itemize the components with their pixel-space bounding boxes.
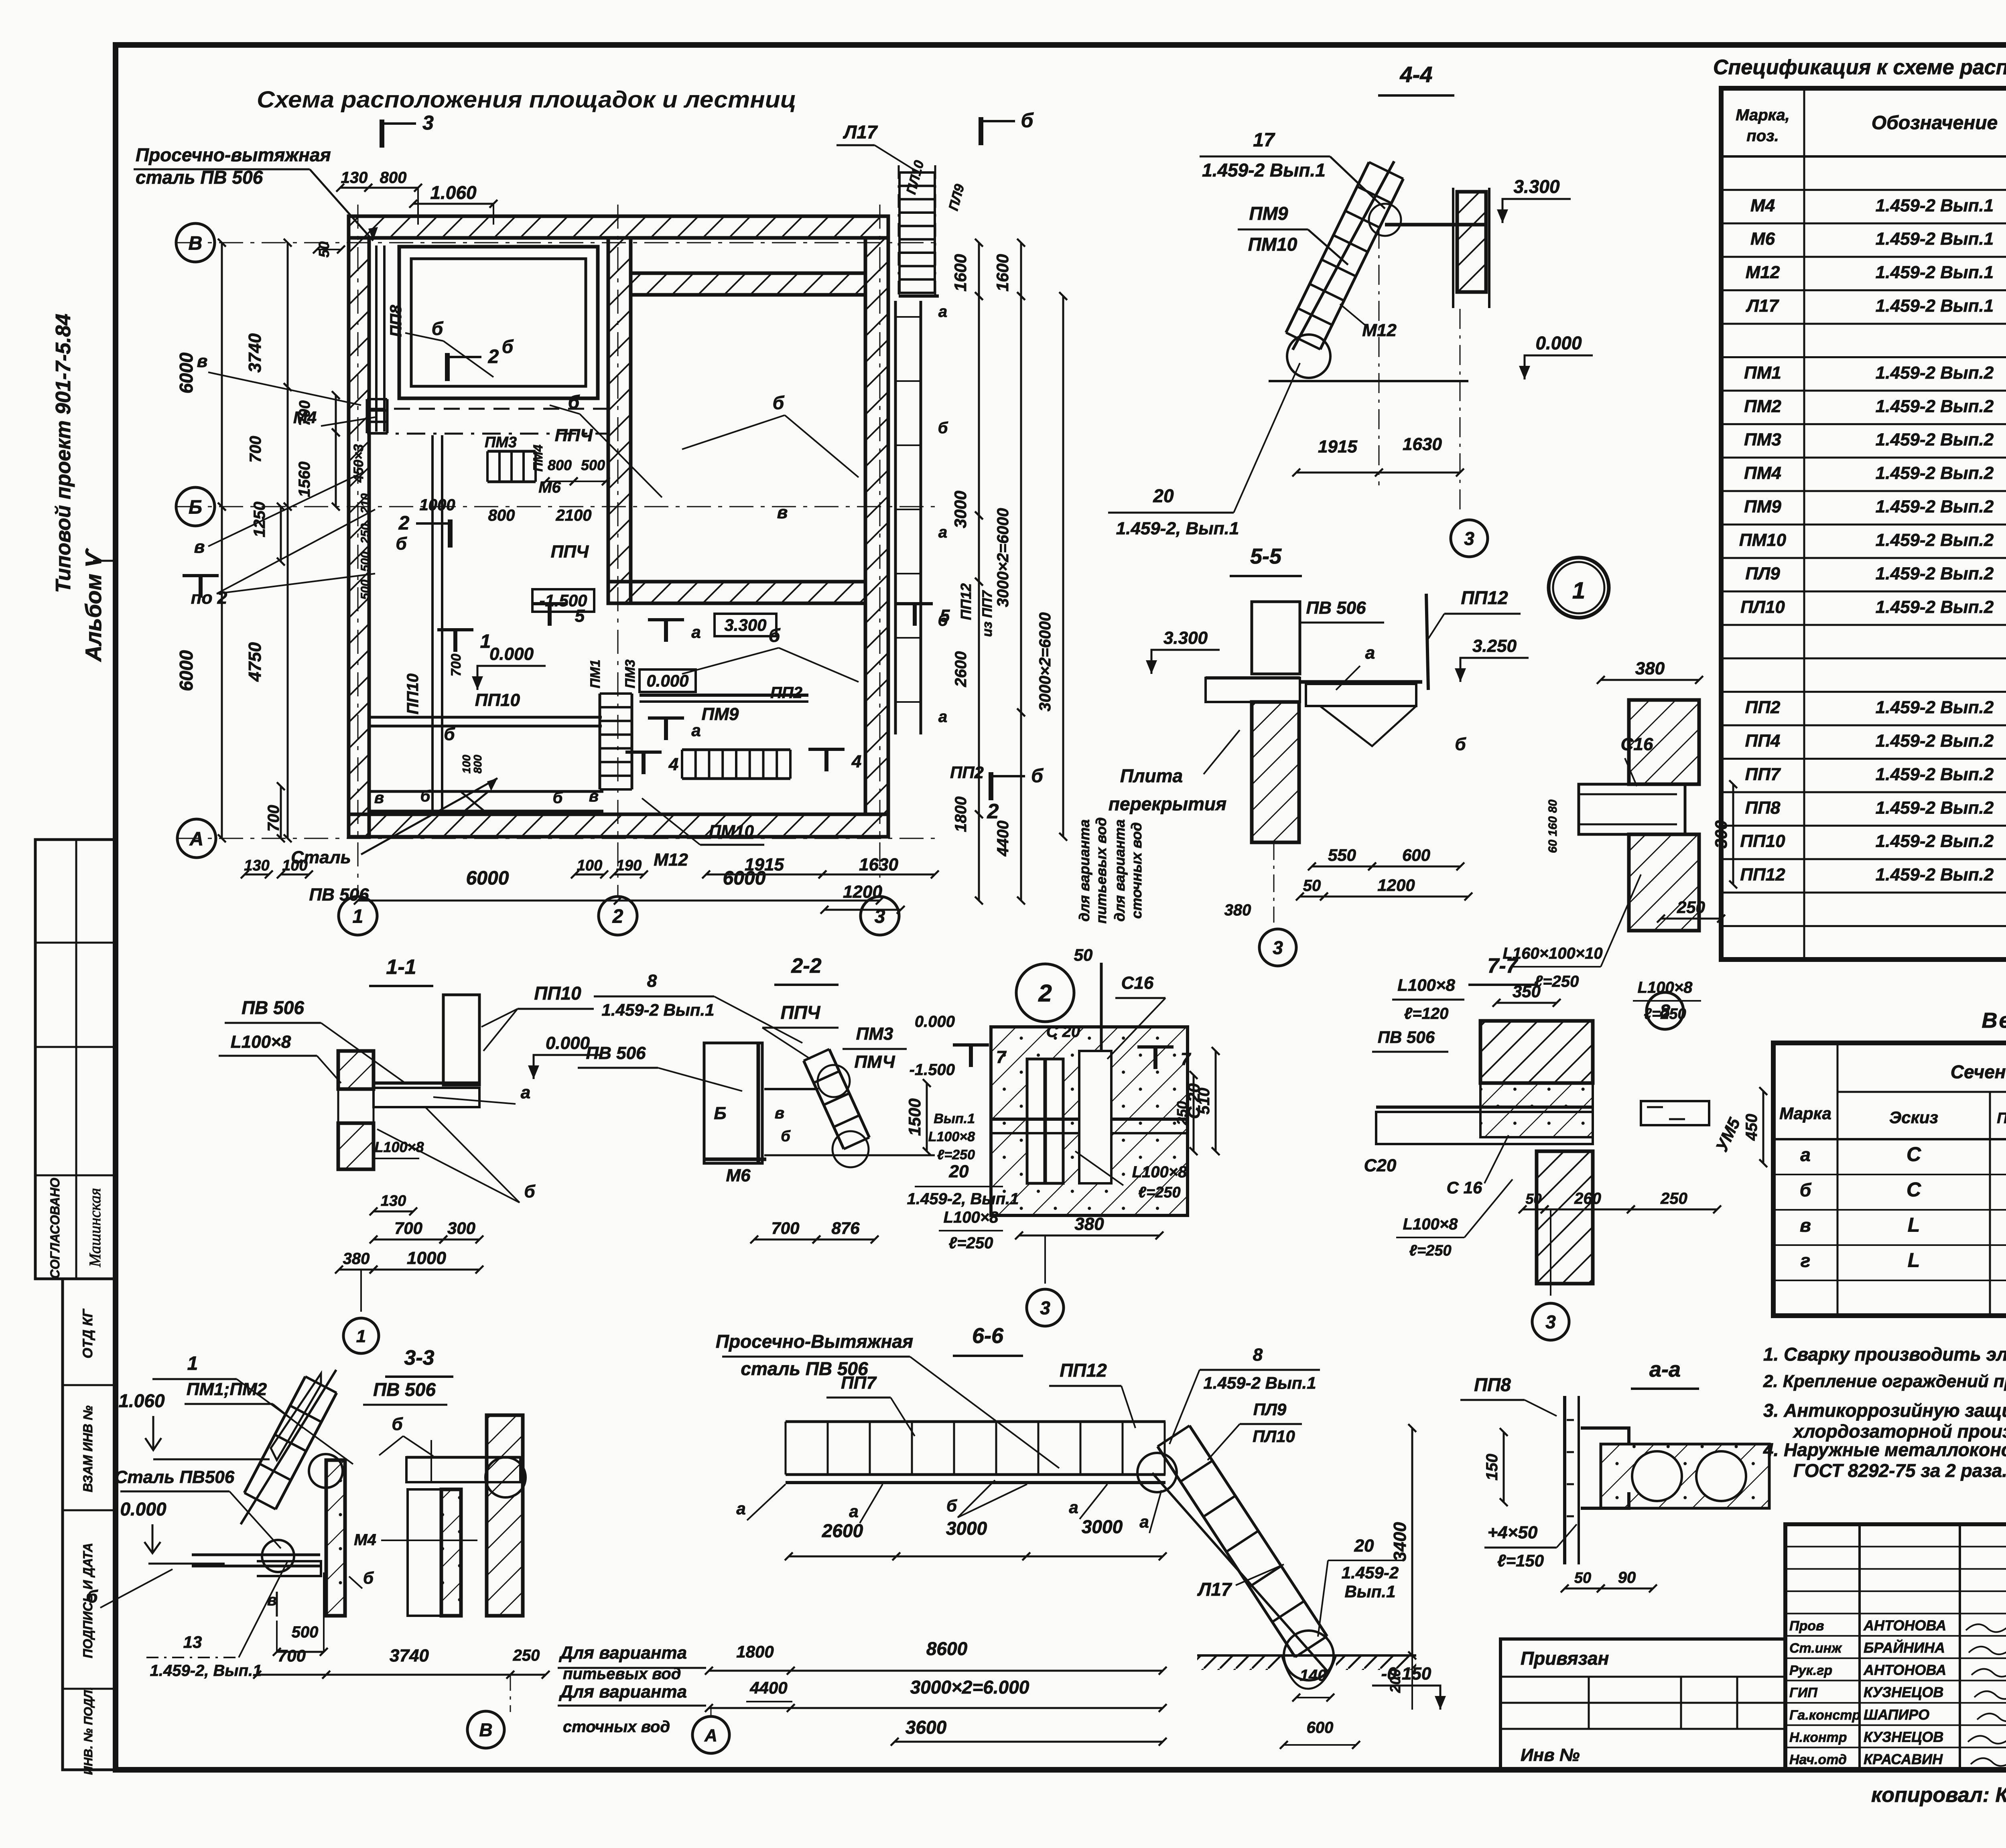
svg-text:а: а <box>691 721 700 740</box>
axis circles <box>176 223 215 262</box>
svg-text:ПМ10: ПМ10 <box>1739 530 1787 550</box>
svg-text:б: б <box>87 1587 98 1607</box>
svg-text:250: 250 <box>513 1647 540 1664</box>
svg-text:2600: 2600 <box>822 1520 863 1541</box>
svg-text:L100×8: L100×8 <box>1638 979 1693 996</box>
svg-text:3: 3 <box>1464 528 1474 549</box>
svg-text:б: б <box>769 625 781 646</box>
svg-text:а: а <box>849 1502 858 1521</box>
svg-text:ГОСТ 8292-75 за 2 раза.: ГОСТ 8292-75 за 2 раза. <box>1793 1460 2006 1481</box>
svg-text:в: в <box>775 1104 784 1122</box>
svg-text:90: 90 <box>1618 1569 1636 1586</box>
svg-text:б: б <box>946 1496 957 1515</box>
svg-text:ПМ9: ПМ9 <box>702 704 739 724</box>
svg-text:L100×8: L100×8 <box>231 1032 291 1052</box>
svg-text:б: б <box>444 724 455 744</box>
svg-text:б: б <box>524 1182 536 1201</box>
svg-text:L160×100×10: L160×100×10 <box>1502 945 1602 962</box>
svg-text:3: 3 <box>1040 1298 1050 1319</box>
svg-text:ПЛ10: ПЛ10 <box>1253 1427 1295 1446</box>
svg-text:1.459-2 Вып.2: 1.459-2 Вып.2 <box>1876 832 1994 851</box>
svg-text:М4: М4 <box>354 1531 376 1549</box>
svg-text:ПМ1;ПМ2: ПМ1;ПМ2 <box>187 1379 267 1399</box>
svg-text:100: 100 <box>460 755 473 773</box>
svg-text:ПМ2: ПМ2 <box>1744 396 1781 416</box>
svg-text:в: в <box>589 787 599 805</box>
svg-text:ℓ=250: ℓ=250 <box>1409 1242 1451 1259</box>
svg-text:С: С <box>1907 1143 1921 1166</box>
svg-text:для варианта: для варианта <box>1111 820 1128 922</box>
svg-text:3.300: 3.300 <box>724 616 766 635</box>
svg-text:б: б <box>1031 765 1044 787</box>
svg-text:20: 20 <box>1153 485 1174 506</box>
svg-text:20: 20 <box>1354 1536 1374 1556</box>
svg-text:Марка,: Марка, <box>1736 106 1790 124</box>
svg-text:ПМ3: ПМ3 <box>1744 430 1781 450</box>
detail mark 1 <box>1549 558 1609 618</box>
svg-text:20: 20 <box>949 1162 969 1181</box>
svg-text:4400: 4400 <box>994 821 1012 857</box>
svg-text:хлордозаторной производить п: хлордозаторной производить по таблице на… <box>1792 1421 2006 1442</box>
svg-text:700: 700 <box>247 436 264 463</box>
svg-text:1.459-2 Вып.2: 1.459-2 Вып.2 <box>1876 497 1994 517</box>
svg-text:б: б <box>1021 109 1034 132</box>
left stamp column <box>35 840 116 1279</box>
svg-text:4400: 4400 <box>749 1678 787 1697</box>
floor plan walls <box>349 216 888 238</box>
svg-text:ППЧ: ППЧ <box>555 426 593 445</box>
svg-text:ПМ10: ПМ10 <box>709 822 754 840</box>
svg-text:б: б <box>1455 734 1466 754</box>
svg-text:Га.констр: Га.констр <box>1789 1708 1860 1723</box>
svg-text:б: б <box>363 1568 374 1587</box>
svg-text:1.459-2 Вып.1: 1.459-2 Вып.1 <box>1876 229 1994 249</box>
svg-text:ПВ 506: ПВ 506 <box>1378 1028 1435 1047</box>
svg-text:Н.контр: Н.контр <box>1789 1730 1847 1745</box>
svg-text:поз.: поз. <box>1746 127 1779 145</box>
svg-text:ℓ=150: ℓ=150 <box>1497 1551 1544 1570</box>
svg-text:4: 4 <box>668 755 678 774</box>
svg-text:Привязан: Привязан <box>1521 1648 1609 1669</box>
svg-text:б: б <box>773 392 785 413</box>
svg-text:250: 250 <box>1660 1190 1687 1207</box>
svg-text:1800: 1800 <box>736 1642 774 1661</box>
svg-text:550: 550 <box>1328 846 1356 864</box>
svg-text:Б: Б <box>714 1104 726 1123</box>
svg-text:ПП7: ПП7 <box>1745 765 1781 784</box>
svg-text:3: 3 <box>422 112 434 134</box>
svg-text:АНТОНОВА: АНТОНОВА <box>1863 1617 1946 1633</box>
svg-text:1.459-2 Вып.2: 1.459-2 Вып.2 <box>1876 798 1994 818</box>
svg-text:б: б <box>553 789 563 807</box>
svg-text:для варианта: для варианта <box>1076 820 1092 922</box>
svg-text:Б: Б <box>189 497 202 518</box>
svg-text:ПЛ9: ПЛ9 <box>1745 564 1780 583</box>
svg-text:500: 500 <box>359 552 372 572</box>
svg-text:ПВ 506: ПВ 506 <box>242 997 304 1018</box>
svg-text:450: 450 <box>1743 1114 1760 1141</box>
svg-text:1.459-2 Вып.2: 1.459-2 Вып.2 <box>1876 597 1994 617</box>
svg-text:7-7: 7-7 <box>1487 954 1518 978</box>
svg-text:380: 380 <box>1074 1214 1104 1234</box>
specification table <box>1721 88 2006 959</box>
svg-text:1.459-2 Вып.1: 1.459-2 Вып.1 <box>1202 160 1326 181</box>
svg-text:3: 3 <box>1273 937 1283 958</box>
svg-text:L100×8: L100×8 <box>1397 976 1455 994</box>
svg-text:ПВ 506: ПВ 506 <box>1306 598 1366 618</box>
svg-text:1.459-2 Вып.2: 1.459-2 Вып.2 <box>1876 430 1994 450</box>
svg-text:Л17: Л17 <box>1746 296 1780 316</box>
svg-text:ПВ 506: ПВ 506 <box>586 1043 646 1063</box>
svg-text:Схема расположения площадок и: Схема расположения площадок и лестниц <box>257 87 796 113</box>
svg-text:1.459-2 Вып.2: 1.459-2 Вып.2 <box>1876 731 1994 751</box>
svg-text:г: г <box>1801 1250 1811 1271</box>
platform edges lower rooms <box>369 716 602 719</box>
title block <box>1785 1524 2006 1770</box>
svg-text:ПП10: ПП10 <box>534 983 581 1004</box>
svg-text:ПП8: ПП8 <box>387 304 405 337</box>
svg-text:L: L <box>1908 1214 1920 1236</box>
svg-text:ℓ=250: ℓ=250 <box>1644 1006 1686 1022</box>
svg-text:1.060: 1.060 <box>430 182 477 203</box>
svg-text:ℓ=250: ℓ=250 <box>937 1147 975 1162</box>
svg-text:Для варианта: Для варианта <box>558 1643 687 1663</box>
svg-text:ПМ4: ПМ4 <box>1744 463 1781 483</box>
svg-text:в: в <box>374 789 384 807</box>
svg-text:800: 800 <box>471 755 484 773</box>
svg-text:2: 2 <box>987 800 999 823</box>
svg-text:130: 130 <box>244 857 269 874</box>
svg-text:а: а <box>521 1083 530 1102</box>
svg-text:ПМ9: ПМ9 <box>1249 203 1288 224</box>
svg-text:800: 800 <box>380 169 407 187</box>
svg-text:Альбом Ѵ: Альбом Ѵ <box>81 548 106 662</box>
svg-text:ПП2: ПП2 <box>770 684 802 702</box>
svg-text:2: 2 <box>612 906 623 927</box>
svg-text:380: 380 <box>1224 901 1251 919</box>
svg-text:1-1: 1-1 <box>386 955 416 979</box>
svg-text:Машинская: Машинская <box>86 1188 104 1268</box>
svg-text:ПМЧ: ПМЧ <box>854 1052 895 1072</box>
svg-text:Обозначение: Обозначение <box>1872 112 1998 134</box>
svg-text:2100: 2100 <box>556 507 592 524</box>
svg-text:БРАЙНИНА: БРАЙНИНА <box>1864 1639 1945 1656</box>
svg-text:ПМ3: ПМ3 <box>623 659 638 688</box>
svg-text:3.300: 3.300 <box>1513 176 1560 197</box>
svg-text:130: 130 <box>381 1193 406 1209</box>
svg-text:5-5: 5-5 <box>1250 544 1282 568</box>
leader polylines <box>405 333 493 377</box>
svg-text:в: в <box>1800 1215 1811 1236</box>
svg-text:600: 600 <box>1402 846 1430 864</box>
svg-text:2: 2 <box>398 513 410 534</box>
svg-text:ПП10: ПП10 <box>475 690 520 710</box>
svg-text:13: 13 <box>183 1633 202 1651</box>
svg-text:2-2: 2-2 <box>791 954 821 978</box>
svg-text:-1.500: -1.500 <box>910 1061 955 1079</box>
svg-text:КУЗНЕЦОВ: КУЗНЕЦОВ <box>1864 1728 1943 1745</box>
svg-text:ПП12: ПП12 <box>958 583 974 620</box>
svg-text:500: 500 <box>581 457 605 473</box>
plan axis dash-dot lines <box>357 205 359 897</box>
svg-text:ПП12: ПП12 <box>1461 587 1508 608</box>
svg-text:В: В <box>189 233 203 254</box>
svg-text:ПП2: ПП2 <box>950 763 984 782</box>
svg-text:1: 1 <box>356 1327 366 1346</box>
svg-text:Сталь ПВ506: Сталь ПВ506 <box>115 1467 235 1487</box>
svg-text:3: 3 <box>1545 1312 1556 1333</box>
svg-text:1: 1 <box>187 1353 198 1374</box>
svg-text:М4: М4 <box>1750 196 1775 215</box>
svg-text:в: в <box>777 503 788 522</box>
svg-text:50: 50 <box>1574 1570 1591 1586</box>
right dimension chains <box>978 243 980 296</box>
svg-text:3600: 3600 <box>906 1717 947 1738</box>
svg-text:3000×2=6000: 3000×2=6000 <box>1036 613 1054 712</box>
svg-text:М12: М12 <box>1746 263 1780 282</box>
svg-text:5: 5 <box>940 606 950 626</box>
svg-text:1630: 1630 <box>859 855 898 874</box>
svg-text:а: а <box>938 708 947 726</box>
level boxes <box>532 589 594 612</box>
svg-text:ПМ10: ПМ10 <box>1248 234 1297 255</box>
svg-text:800: 800 <box>488 507 515 524</box>
svg-text:Просечно-вытяжная: Просечно-вытяжная <box>136 144 331 165</box>
svg-text:ПП8: ПП8 <box>1474 1374 1511 1395</box>
top dimension chain <box>340 187 368 189</box>
svg-text:б: б <box>420 787 431 805</box>
svg-text:ПП10: ПП10 <box>404 673 422 714</box>
svg-text:А: А <box>189 828 204 850</box>
svg-text:0.000: 0.000 <box>120 1499 166 1519</box>
svg-text:Марка: Марка <box>1779 1104 1831 1123</box>
svg-text:а: а <box>938 303 947 321</box>
svg-text:250: 250 <box>359 523 372 544</box>
svg-text:3.250: 3.250 <box>1472 636 1517 656</box>
svg-text:Для варианта: Для варианта <box>558 1682 687 1702</box>
svg-text:1.459-2 Вып.2: 1.459-2 Вып.2 <box>1876 363 1994 383</box>
svg-text:4-4: 4-4 <box>1400 62 1433 87</box>
svg-text:876: 876 <box>831 1219 860 1237</box>
svg-text:0.000: 0.000 <box>915 1013 955 1030</box>
svg-text:6000: 6000 <box>176 650 197 691</box>
svg-text:3-3: 3-3 <box>404 1346 434 1369</box>
svg-text:КУЗНЕЦОВ: КУЗНЕЦОВ <box>1864 1684 1943 1700</box>
svg-text:А: А <box>704 1726 717 1745</box>
svg-text:ПП10: ПП10 <box>1740 832 1785 851</box>
svg-text:L: L <box>1908 1249 1920 1272</box>
svg-text:L100×8: L100×8 <box>374 1139 424 1155</box>
svg-text:Рук.гр: Рук.гр <box>1789 1663 1832 1678</box>
svg-text:С16: С16 <box>1621 734 1653 754</box>
svg-text:Плита: Плита <box>1120 765 1183 786</box>
svg-text:4. Наружные металлоконструкци: 4. Наружные металлоконструкции окрасить … <box>1763 1439 2006 1460</box>
svg-text:1.459-2 Вып.2: 1.459-2 Вып.2 <box>1876 698 1994 717</box>
svg-text:260: 260 <box>1574 1190 1601 1207</box>
svg-text:1000: 1000 <box>420 496 455 514</box>
svg-text:3400: 3400 <box>1390 1522 1410 1561</box>
svg-text:6000: 6000 <box>466 868 509 889</box>
svg-text:130: 130 <box>341 169 368 187</box>
svg-text:1915: 1915 <box>1318 437 1357 456</box>
svg-text:140: 140 <box>1300 1667 1327 1684</box>
svg-text:700: 700 <box>394 1219 422 1237</box>
partition walkway lower-left <box>431 435 434 810</box>
svg-text:7: 7 <box>1181 1049 1192 1069</box>
svg-text:Нач.отд: Нач.отд <box>1789 1752 1847 1767</box>
svg-text:2: 2 <box>488 346 499 367</box>
svg-text:в: в <box>197 351 208 371</box>
svg-text:700: 700 <box>278 1646 306 1665</box>
svg-text:б: б <box>938 419 948 437</box>
svg-text:ℓ=250: ℓ=250 <box>1138 1184 1180 1201</box>
svg-text:Инв №: Инв № <box>1521 1745 1580 1765</box>
svg-text:3000×2=6000: 3000×2=6000 <box>994 508 1012 607</box>
bottom dimension chains <box>358 900 618 902</box>
svg-text:ПЛ10: ПЛ10 <box>1740 597 1785 617</box>
svg-text:ПМ3: ПМ3 <box>485 434 517 451</box>
svg-text:1500: 1500 <box>905 1098 924 1136</box>
svg-text:0.000: 0.000 <box>489 644 534 664</box>
svg-text:1.060: 1.060 <box>118 1390 165 1411</box>
svg-text:8: 8 <box>1253 1345 1263 1365</box>
svg-text:3000: 3000 <box>951 491 970 528</box>
svg-text:КРАСАВИН: КРАСАВИН <box>1864 1751 1943 1767</box>
dashed partition lines <box>369 408 608 410</box>
svg-text:а: а <box>1139 1512 1149 1531</box>
svg-text:из ПП7: из ПП7 <box>980 590 995 637</box>
svg-text:а: а <box>938 523 947 541</box>
svg-text:700: 700 <box>771 1219 799 1237</box>
svg-text:300: 300 <box>447 1219 475 1237</box>
svg-text:б: б <box>502 336 514 357</box>
svg-text:3740: 3740 <box>390 1646 429 1665</box>
svg-text:ПМ1: ПМ1 <box>588 659 603 688</box>
tank double rectangle <box>399 247 598 398</box>
svg-text:ИНВ. № ПОДЛ.: ИНВ. № ПОДЛ. <box>82 1687 95 1775</box>
svg-text:510: 510 <box>1195 1088 1213 1115</box>
svg-text:ℓ=120: ℓ=120 <box>1404 1005 1449 1022</box>
svg-text:250: 250 <box>1174 1101 1190 1126</box>
svg-text:сталь ПВ 506: сталь ПВ 506 <box>136 167 263 188</box>
svg-text:Поз.: Поз. <box>1997 1110 2006 1127</box>
svg-text:ПП12: ПП12 <box>1060 1360 1107 1381</box>
svg-text:0.000: 0.000 <box>1535 333 1582 353</box>
svg-text:1000: 1000 <box>407 1248 446 1268</box>
svg-text:б: б <box>781 1128 791 1145</box>
svg-text:8: 8 <box>647 971 657 991</box>
svg-text:перекрытия: перекрытия <box>1109 793 1226 814</box>
svg-text:190: 190 <box>616 857 642 874</box>
svg-text:3000: 3000 <box>1082 1516 1123 1537</box>
svg-text:М4: М4 <box>293 408 317 427</box>
svg-text:1.459-2 Вып.1: 1.459-2 Вып.1 <box>1876 296 1994 316</box>
svg-text:питьевых вод: питьевых вод <box>1093 818 1109 924</box>
svg-text:5: 5 <box>575 606 585 626</box>
svg-text:С: С <box>1907 1179 1921 1201</box>
svg-text:L100×8: L100×8 <box>1403 1215 1458 1233</box>
svg-text:ПП8: ПП8 <box>1745 798 1781 818</box>
svg-text:3000: 3000 <box>946 1518 987 1539</box>
svg-text:1200: 1200 <box>1377 876 1415 895</box>
svg-text:б: б <box>392 1414 403 1434</box>
svg-text:Сталь: Сталь <box>291 848 351 867</box>
left dimension chains <box>221 243 223 507</box>
svg-text:ПМ4: ПМ4 <box>531 444 545 472</box>
svg-text:ℓ=250: ℓ=250 <box>949 1234 993 1252</box>
svg-text:М12: М12 <box>654 850 688 870</box>
svg-text:1: 1 <box>353 906 363 927</box>
svg-text:700: 700 <box>449 654 464 677</box>
external railing right <box>894 301 897 734</box>
svg-text:ППЧ: ППЧ <box>781 1002 821 1023</box>
svg-text:Вып.1: Вып.1 <box>1345 1582 1396 1601</box>
svg-text:Вып.1: Вып.1 <box>934 1111 975 1126</box>
svg-text:1.459-2 Вып.2: 1.459-2 Вып.2 <box>1876 530 1994 550</box>
svg-text:ПЛ9: ПЛ9 <box>1253 1400 1287 1419</box>
svg-text:50: 50 <box>1074 945 1093 964</box>
svg-text:ШАПИРО: ШАПИРО <box>1864 1706 1929 1723</box>
svg-text:1.459-2 Вып.2: 1.459-2 Вып.2 <box>1876 396 1994 416</box>
svg-text:ГИП: ГИП <box>1789 1685 1818 1700</box>
svg-text:С 20: С 20 <box>1046 1023 1080 1041</box>
svg-text:2600: 2600 <box>952 651 970 688</box>
svg-text:б: б <box>432 318 444 339</box>
svg-text:50: 50 <box>1525 1191 1541 1207</box>
svg-text:б: б <box>1800 1180 1812 1201</box>
svg-text:1560: 1560 <box>296 462 313 497</box>
svg-text:3.300: 3.300 <box>1163 628 1208 648</box>
svg-text:+4×50: +4×50 <box>1488 1523 1538 1542</box>
svg-text:500: 500 <box>292 1623 319 1641</box>
svg-text:б: б <box>568 392 580 412</box>
svg-text:600: 600 <box>1307 1719 1334 1736</box>
svg-text:210: 210 <box>359 493 372 514</box>
svg-text:ПМ9: ПМ9 <box>1744 497 1781 517</box>
svg-text:6000: 6000 <box>176 352 197 394</box>
svg-text:0.000: 0.000 <box>546 1033 590 1053</box>
svg-text:1.459-2 Вып.2: 1.459-2 Вып.2 <box>1876 463 1994 483</box>
svg-text:а: а <box>1800 1144 1811 1165</box>
svg-text:L100×8: L100×8 <box>1132 1163 1188 1181</box>
svg-text:1. Сварку производить электро: 1. Сварку производить электродами Э-42 Г… <box>1763 1344 2006 1365</box>
svg-text:ПМ3: ПМ3 <box>856 1024 893 1044</box>
svg-text:1915: 1915 <box>745 855 784 874</box>
svg-text:ПП7: ПП7 <box>841 1373 877 1393</box>
svg-text:L100×8: L100×8 <box>928 1129 975 1144</box>
svg-text:Просечно-Вытяжная: Просечно-Вытяжная <box>716 1331 913 1352</box>
svg-text:ПВ 506: ПВ 506 <box>373 1379 436 1400</box>
svg-text:60 160 80: 60 160 80 <box>1546 799 1559 853</box>
svg-text:2. Крепление ограждений прои: 2. Крепление ограждений производить в со… <box>1763 1371 2006 1391</box>
svg-text:1800: 1800 <box>952 797 970 832</box>
svg-text:7: 7 <box>996 1047 1007 1067</box>
svg-text:1.459-2 Вып.2: 1.459-2 Вып.2 <box>1876 865 1994 884</box>
svg-text:1.459-2 Вып.2: 1.459-2 Вып.2 <box>1876 564 1994 583</box>
svg-text:а: а <box>691 623 700 641</box>
svg-text:8600: 8600 <box>926 1638 968 1659</box>
svg-text:1.459-2 Вып.1: 1.459-2 Вып.1 <box>602 1000 715 1019</box>
external ladder L17 top right <box>898 165 900 296</box>
plan stairs <box>512 481 536 483</box>
svg-text:Пров: Пров <box>1789 1618 1824 1633</box>
svg-text:1600: 1600 <box>993 254 1012 291</box>
svg-text:50: 50 <box>1303 877 1321 895</box>
svg-text:100: 100 <box>577 857 602 874</box>
svg-text:С 16: С 16 <box>1447 1178 1482 1197</box>
svg-text:Ст.инж: Ст.инж <box>1789 1641 1842 1656</box>
svg-text:а-а: а-а <box>1649 1357 1681 1381</box>
